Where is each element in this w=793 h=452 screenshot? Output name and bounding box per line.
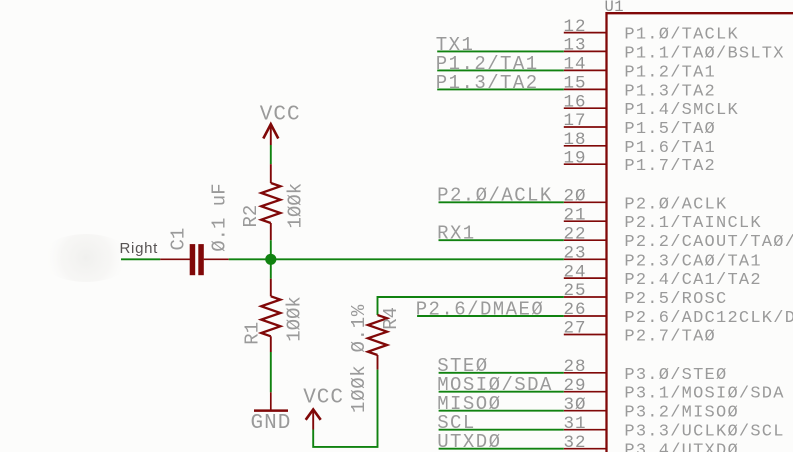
U1 pin 29 P3.1/MOSI0/SDA — [564, 376, 785, 404]
svg-text:P1.2/TA1: P1.2/TA1 — [624, 63, 716, 82]
svg-text:P1.4/SMCLK: P1.4/SMCLK — [624, 101, 739, 120]
svg-text:P1.5/TAØ: P1.5/TAØ — [624, 120, 716, 139]
U1 pin 23 P2.3/CA0/TA1 — [564, 244, 762, 272]
U1 pin 24 P2.4/CA1/TA2 — [564, 262, 762, 290]
svg-text:13: 13 — [564, 36, 587, 56]
U1 pin 18 P1.6/TA1 — [564, 130, 717, 158]
svg-text:1ØØk Ø.1%: 1ØØk Ø.1% — [348, 304, 370, 413]
power symbol VCC (bottom) — [303, 387, 344, 430]
svg-text:R2: R2 — [240, 205, 262, 228]
svg-text:P1.7/TA2: P1.7/TA2 — [624, 157, 716, 176]
svg-text:P3.Ø/STEØ: P3.Ø/STEØ — [624, 366, 727, 385]
U1 pin 25 P2.5/ROSC — [564, 281, 728, 309]
wire junction to R1 — [270, 259, 272, 278]
svg-text:R1: R1 — [242, 322, 264, 345]
svg-text:P3.4/UTXDØ: P3.4/UTXDØ — [624, 442, 739, 452]
net label TX1 + wire to pin — [436, 34, 564, 56]
svg-text:Ø.1 uF: Ø.1 uF — [209, 183, 231, 251]
svg-text:P1.1/TAØ/BSLTX: P1.1/TAØ/BSLTX — [624, 44, 784, 63]
U1 pin 26 P2.6/ADC12CLK/DMAE0 — [564, 300, 793, 328]
svg-text:P1.3/TA2: P1.3/TA2 — [624, 82, 716, 101]
svg-text:18: 18 — [564, 130, 587, 150]
svg-text:P2.3/CAØ/TA1: P2.3/CAØ/TA1 — [624, 252, 761, 271]
net label P2.0/ACLK + wire to pin — [437, 185, 564, 207]
svg-text:P2.1/TAINCLK: P2.1/TAINCLK — [624, 214, 761, 233]
wire R4 to VCC (bottom) — [313, 370, 377, 447]
net label P1.3/TA2 + wire to pin — [436, 72, 564, 94]
svg-text:17: 17 — [564, 111, 587, 131]
resistor R4 100k 0.1% — [348, 304, 402, 413]
ground GND — [251, 392, 292, 435]
svg-text:U1: U1 — [605, 0, 625, 16]
resistor R1 100k — [242, 279, 306, 352]
svg-text:GND: GND — [251, 412, 292, 435]
U1 pin 17 P1.5/TA0 — [564, 111, 717, 139]
svg-text:1ØØk: 1ØØk — [285, 183, 307, 229]
wire VCC to R2 — [270, 145, 272, 164]
svg-text:P2.2/CAOUT/TAØ/S: P2.2/CAOUT/TAØ/S — [624, 233, 793, 252]
svg-text:P2.7/TAØ: P2.7/TAØ — [624, 328, 716, 347]
U1 pin 13 P1.1/TA0/BSLTX — [564, 36, 785, 64]
power symbol VCC (top) — [260, 103, 301, 145]
svg-text:P3.1/MOSIØ/SDA: P3.1/MOSIØ/SDA — [624, 385, 784, 404]
net label MOSI0/SDA + wire to pin — [437, 374, 564, 396]
wire R4 to U1 pin 25 — [378, 297, 564, 315]
U1 pin 19 P1.7/TA2 — [564, 148, 717, 176]
U1 pin 32 P3.4/UTXD0 — [564, 433, 739, 452]
svg-text:R4: R4 — [380, 307, 402, 330]
net label P1.2/TA1 + wire to pin — [436, 53, 564, 75]
svg-text:27: 27 — [564, 319, 587, 339]
svg-text:22: 22 — [564, 224, 587, 244]
svg-text:P2.6/ADC12CLK/DMAEØ: P2.6/ADC12CLK/DMAEØ — [624, 309, 793, 328]
net label SCL + wire to pin — [437, 412, 564, 434]
capacitor C1 — [160, 183, 230, 275]
U1 pin 14 P1.2/TA1 — [564, 55, 717, 83]
U1 pin 31 P3.3/UCLK0/SCL — [564, 414, 785, 442]
U1 pin 21 P2.1/TAINCLK — [564, 205, 762, 233]
resistor R2 100k — [240, 164, 307, 240]
svg-text:C1: C1 — [168, 228, 190, 251]
U1 pin 27 P2.7/TA0 — [564, 319, 717, 347]
svg-text:25: 25 — [564, 281, 587, 301]
net label STE0 + wire to pin — [437, 355, 564, 377]
svg-text:P1.Ø/TACLK: P1.Ø/TACLK — [624, 26, 739, 45]
svg-text:3Ø: 3Ø — [564, 395, 587, 415]
svg-text:P2.4/CA1/TA2: P2.4/CA1/TA2 — [624, 271, 761, 290]
svg-text:31: 31 — [564, 414, 587, 434]
U1 pin 30 P3.2/MISO0 — [564, 395, 739, 423]
wire C1 to junction and on to U1 pin 23 — [229, 258, 564, 260]
svg-text:P1.6/TA1: P1.6/TA1 — [624, 139, 716, 158]
svg-text:23: 23 — [564, 244, 587, 264]
net label UTXD0 + wire to pin — [437, 431, 564, 452]
svg-text:RX1: RX1 — [437, 223, 476, 245]
svg-text:1ØØk: 1ØØk — [284, 296, 306, 342]
U1 pin 22 P2.2/CAOUT/TA0/S — [564, 224, 793, 252]
net label RX1 + wire to pin — [437, 223, 564, 245]
svg-text:24: 24 — [564, 262, 587, 282]
svg-text:32: 32 — [564, 433, 587, 452]
svg-text:26: 26 — [564, 300, 587, 320]
U1 pin 16 P1.4/SMCLK — [564, 92, 739, 120]
U1 pin 20 P2.0/ACLK — [564, 187, 728, 215]
svg-text:UTXDØ: UTXDØ — [437, 431, 501, 452]
wire R1 to GND — [270, 352, 272, 392]
svg-text:2Ø: 2Ø — [564, 187, 587, 207]
svg-text:19: 19 — [564, 148, 587, 168]
junction node — [265, 254, 276, 265]
U1 pin 28 P3.0/STE0 — [564, 357, 728, 385]
svg-text:P2.Ø/ACLK: P2.Ø/ACLK — [624, 195, 727, 214]
svg-text:P2.Ø/ACLK: P2.Ø/ACLK — [437, 185, 553, 207]
wire Right to C1 — [121, 258, 160, 260]
svg-text:28: 28 — [564, 357, 587, 377]
U1 pin 15 P1.3/TA2 — [564, 74, 717, 102]
svg-text:15: 15 — [564, 74, 587, 94]
svg-text:21: 21 — [564, 205, 587, 225]
svg-text:Right: Right — [120, 240, 159, 257]
net label P2.6/DMAE0 + wire to pin — [416, 298, 564, 320]
wire R2 to junction — [270, 240, 272, 259]
svg-text:P3.2/MISOØ: P3.2/MISOØ — [624, 404, 739, 423]
svg-text:12: 12 — [564, 17, 587, 37]
svg-text:VCC: VCC — [303, 387, 344, 410]
U1 pin 12 P1.0/TACLK — [564, 17, 739, 45]
net label MISO0 + wire to pin — [437, 393, 564, 415]
svg-text:16: 16 — [564, 92, 587, 112]
IC U1 microcontroller body — [605, 0, 793, 452]
svg-text:14: 14 — [564, 55, 587, 75]
svg-text:P2.6/DMAEØ: P2.6/DMAEØ — [416, 298, 545, 320]
svg-text:P3.3/UCLKØ/SCL: P3.3/UCLKØ/SCL — [624, 423, 784, 442]
svg-text:29: 29 — [564, 376, 587, 396]
svg-text:P1.3/TA2: P1.3/TA2 — [436, 72, 539, 94]
svg-text:P2.5/ROSC: P2.5/ROSC — [624, 290, 727, 309]
svg-text:VCC: VCC — [260, 103, 301, 126]
